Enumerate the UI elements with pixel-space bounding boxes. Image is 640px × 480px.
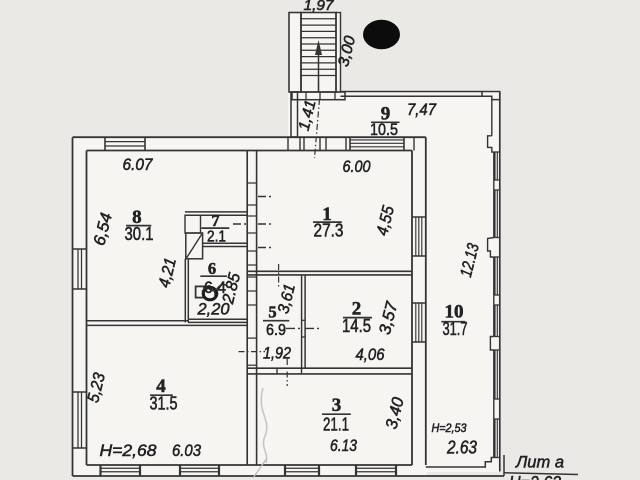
east wall pilaster 2	[488, 238, 494, 258]
door tick marks room 1 side	[258, 196, 274, 198]
room 10 east wall outer line	[499, 92, 501, 472]
door centerline room 5 north	[278, 264, 280, 288]
room 10 top-right corner block	[482, 92, 500, 100]
east wall divider 1	[494, 179, 500, 181]
east main wall inner line	[411, 151, 413, 466]
north wall window left	[104, 137, 106, 150]
svg-text:21.1: 21.1	[323, 415, 349, 435]
central wall east line	[256, 151, 258, 466]
room 9 upper wall boxes	[292, 92, 345, 100]
room 9 top wall	[341, 91, 483, 93]
door centerline 1,41	[315, 99, 320, 158]
pencil artifact curve	[261, 388, 267, 463]
east wall pilaster 1	[488, 136, 494, 152]
north wall divisions	[287, 137, 289, 150]
wall between rooms 5-2 and 3	[247, 367, 412, 369]
room 7 south wall	[203, 242, 248, 244]
svg-text:27.3: 27.3	[314, 220, 344, 241]
toilet cistern	[196, 286, 204, 297]
room 6 west wall	[184, 259, 186, 323]
svg-text:6.9: 6.9	[266, 322, 286, 339]
north wall window room1-room9	[349, 137, 351, 150]
east wall window glazing 5	[493, 350, 495, 399]
door centerline room 3 north	[286, 359, 288, 386]
east wall window glazing 2	[493, 190, 495, 238]
svg-text:14.5: 14.5	[342, 316, 371, 336]
west wall window 1	[73, 248, 87, 250]
wall between rooms 5 and 2	[301, 275, 303, 368]
staircase left wall	[289, 13, 301, 93]
east wall divider 3	[494, 398, 500, 400]
door centerline wall 4-5	[247, 337, 256, 339]
east main wall window 2	[412, 302, 426, 304]
wall between rooms 8 and 4	[87, 320, 189, 322]
south wall outer line	[73, 475, 505, 477]
east wall window glazing 4	[493, 305, 495, 337]
west wall outer line	[72, 137, 74, 476]
east main wall outer line	[425, 137, 427, 465]
svg-text:6.07: 6.07	[123, 155, 153, 174]
room 6 south wall	[188, 318, 247, 320]
svg-text:31.5: 31.5	[150, 394, 178, 414]
east main wall window 1	[412, 216, 426, 218]
svg-text:1,97: 1,97	[304, 0, 335, 14]
room 7 west duct box	[185, 215, 201, 233]
svg-text:4,06: 4,06	[356, 345, 385, 364]
svg-text:31.7: 31.7	[443, 319, 468, 339]
north wall outer line	[73, 136, 426, 138]
building paper area fills	[71, 136, 427, 477]
room 7 north wall	[185, 211, 247, 213]
svg-text:7,47: 7,47	[407, 101, 437, 119]
bottom right wall tail	[503, 455, 505, 476]
door ticks rooms 5-2	[286, 327, 302, 329]
south wall windows	[99, 465, 101, 476]
east wall divider 2	[494, 294, 500, 296]
underline of litera	[504, 473, 578, 475]
room 10 east wall inner segment top	[491, 100, 493, 136]
room 10 bottom step corner	[426, 458, 494, 468]
svg-text:Лит а: Лит а	[515, 453, 564, 472]
svg-text:3: 3	[332, 395, 342, 416]
east wall window glazing 6	[493, 419, 495, 458]
room 9 left wall	[291, 92, 298, 137]
svg-text:H=2,68: H=2,68	[100, 441, 158, 460]
east wall window glazing 1	[494, 152, 496, 180]
svg-text:2.63: 2.63	[446, 438, 477, 458]
svg-text:6: 6	[208, 259, 216, 278]
svg-text:H=2,53: H=2,53	[432, 421, 467, 435]
svg-text:2.1: 2.1	[207, 229, 226, 246]
south wall inner line	[87, 464, 413, 466]
east wall window glazing 3	[493, 257, 495, 295]
black dot marker	[363, 20, 400, 49]
strike-through squiggle on 6,4	[202, 285, 227, 292]
svg-text:Н=2,63: Н=2,63	[509, 473, 561, 480]
central wall west line	[246, 151, 248, 466]
svg-text:30.1: 30.1	[125, 223, 154, 244]
staircase right wall	[336, 13, 341, 93]
svg-text:6.00: 6.00	[343, 157, 371, 176]
west wall window 2	[73, 391, 87, 393]
svg-text:1,92: 1,92	[263, 345, 291, 363]
wall between room 1 and rooms 5-2	[247, 270, 412, 272]
staircase body with steps	[301, 13, 336, 93]
staircase landing division	[318, 81, 320, 92]
svg-text:6.13: 6.13	[330, 437, 358, 455]
toilet bowl	[203, 287, 217, 299]
svg-text:6.03: 6.03	[172, 442, 202, 460]
east wall pilaster 3	[490, 337, 493, 351]
door tick mark room 7 side	[233, 223, 247, 225]
central wall divisions	[247, 182, 256, 184]
staircase up arrow	[318, 50, 320, 92]
pencil artifact diagonal	[253, 458, 267, 478]
north wall inner line	[87, 150, 413, 152]
flue box with diagonal	[186, 233, 203, 259]
svg-text:7: 7	[211, 211, 219, 230]
west wall inner line	[86, 151, 88, 466]
